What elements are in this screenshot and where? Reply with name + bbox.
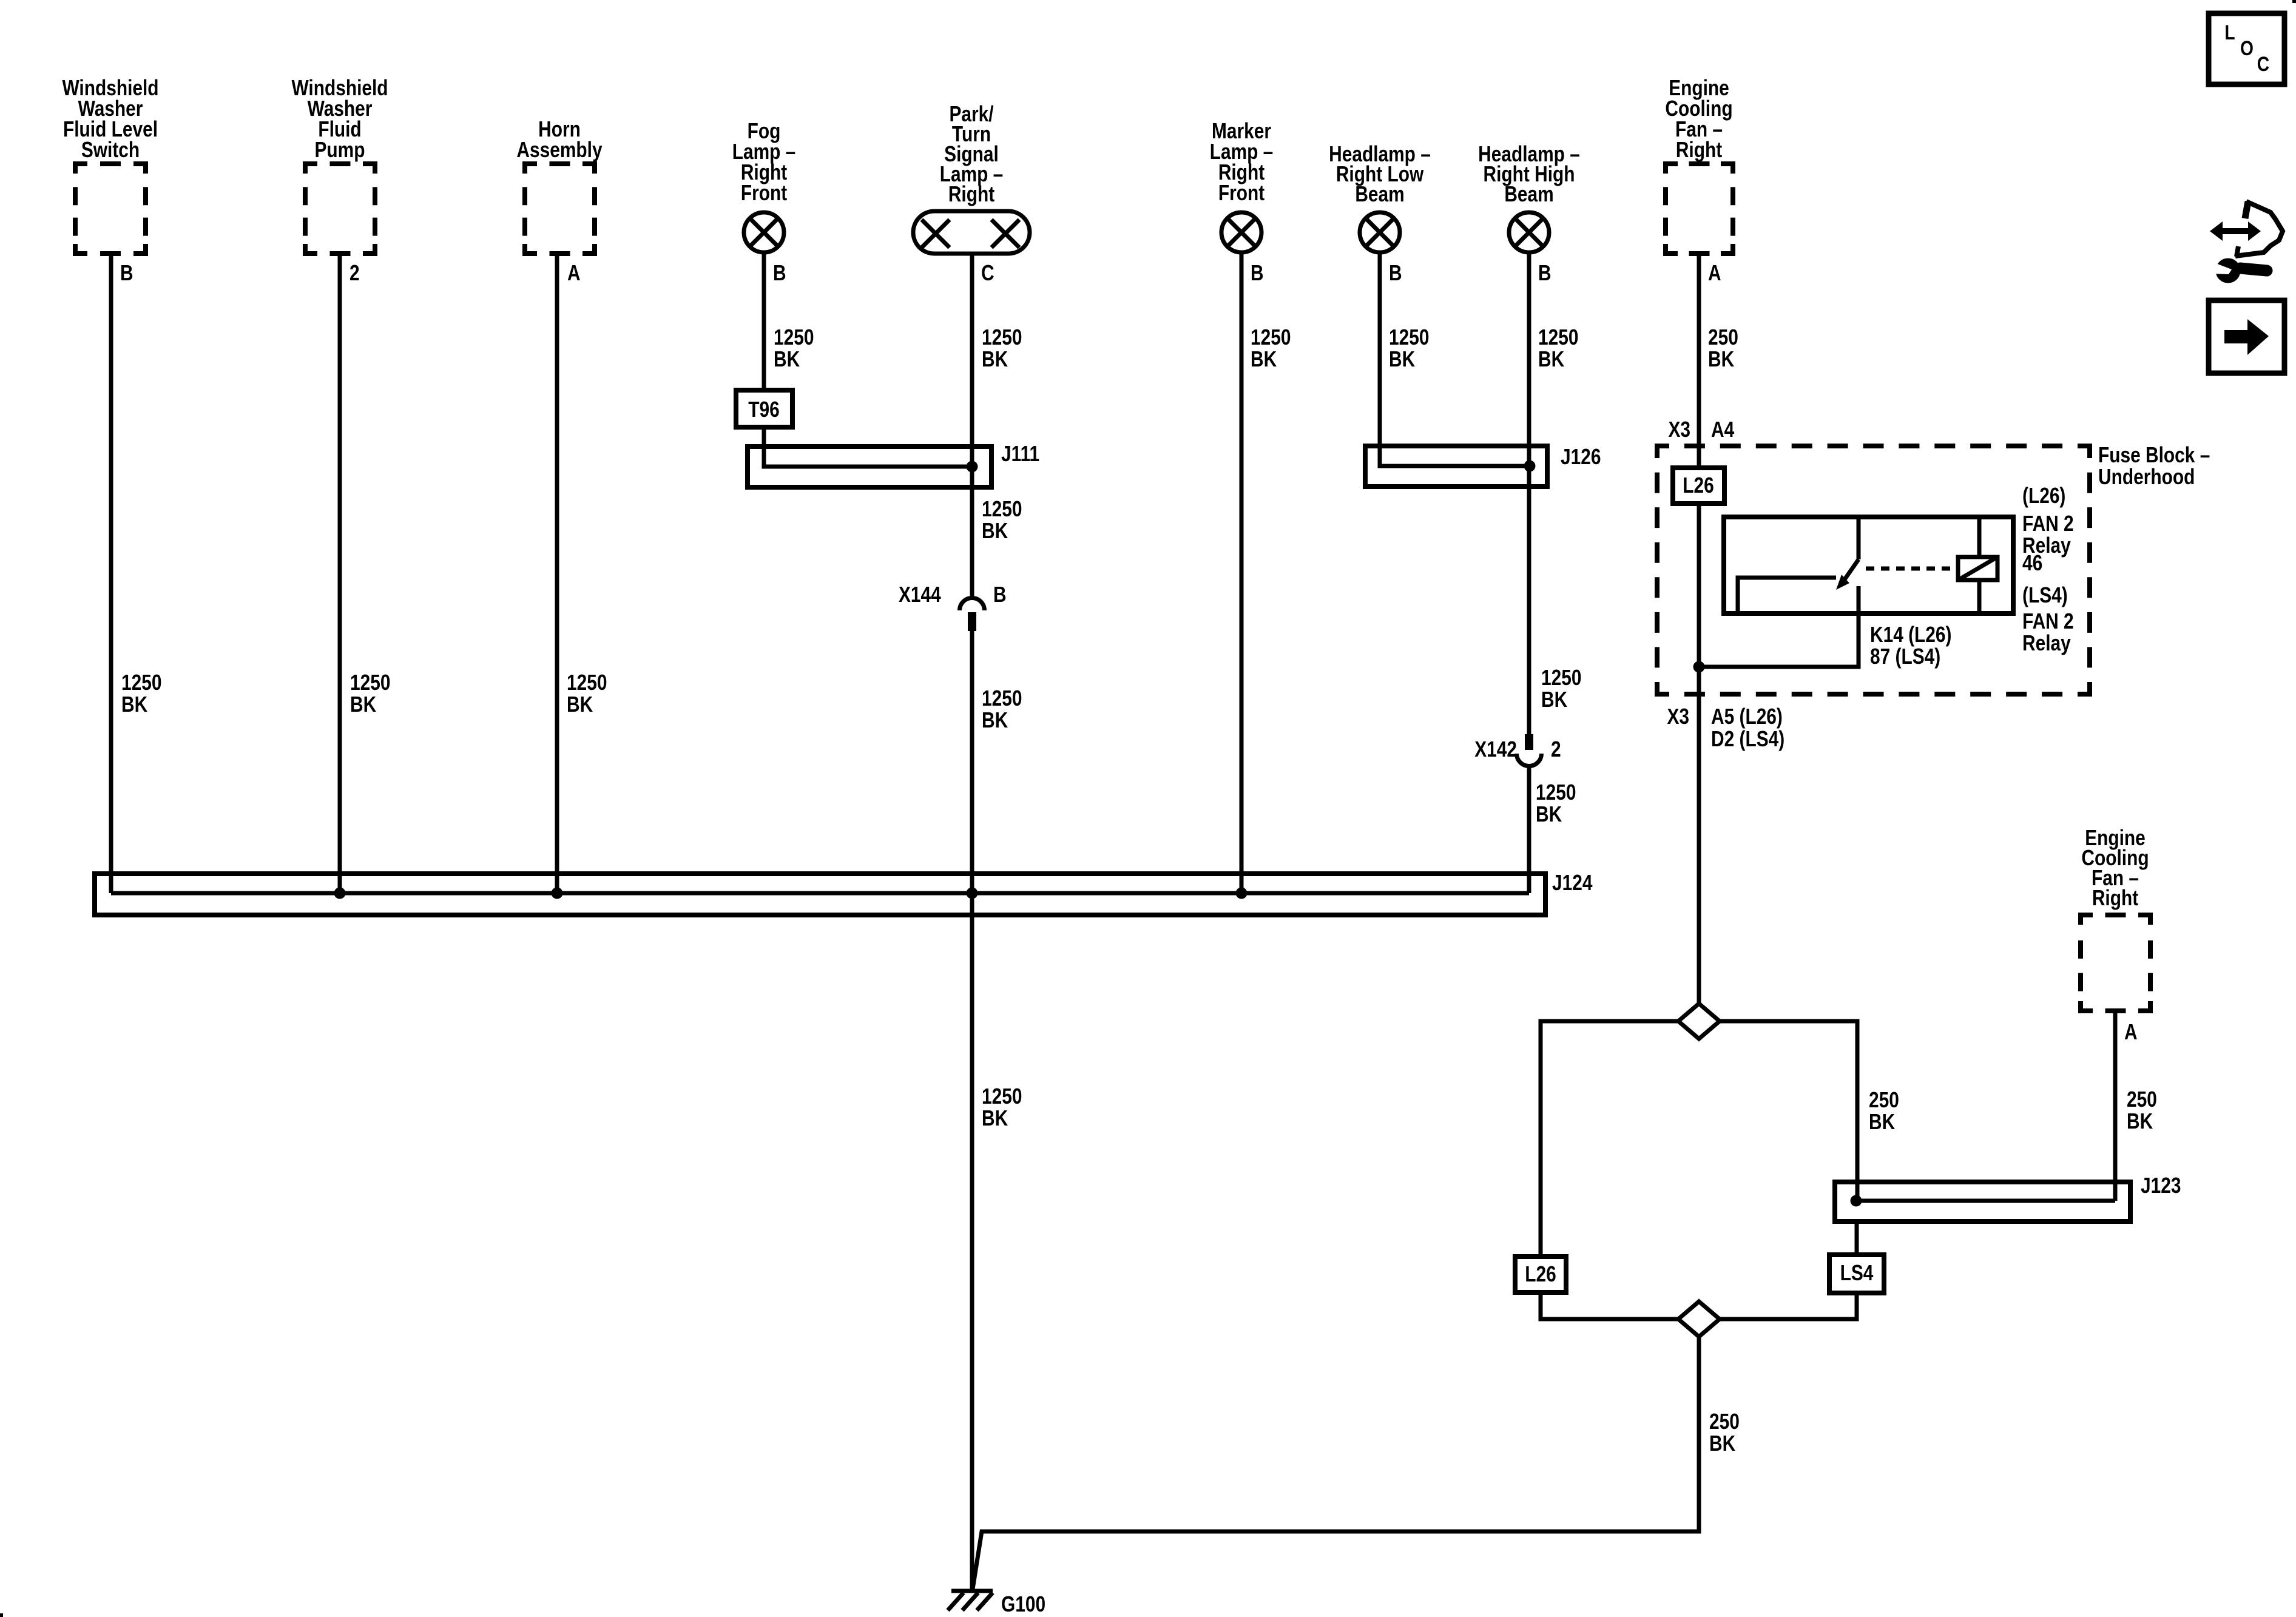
svg-text:BK: BK <box>1869 1110 1895 1134</box>
svg-text:Relay: Relay <box>2022 631 2071 655</box>
svg-text:T96: T96 <box>748 397 779 422</box>
next-page arrow icon box <box>2209 300 2284 373</box>
wire label 1250 BK (horn ground wire) <box>567 670 607 717</box>
svg-text:A5 (L26): A5 (L26) <box>1711 704 1783 729</box>
relay K14 FAN 2 Relay (outline) <box>1724 517 2013 613</box>
svg-text:BK: BK <box>1251 347 1277 371</box>
component: Headlamp - Right Low Beam (lamp symbol) <box>1329 142 1431 252</box>
wire: fog lamp pin B to T96 <box>762 252 766 390</box>
wire: diamond top to LS4 branch (right) <box>1720 1021 1857 1201</box>
svg-text:BK: BK <box>982 347 1008 371</box>
svg-text:C: C <box>981 261 994 285</box>
wire label 1250 BK (below X144) <box>982 686 1022 732</box>
wire: low beam pin B to splice J126 <box>1380 252 1530 466</box>
component: Fog Lamp - Right Front (lamp symbol) <box>732 119 796 252</box>
svg-text:FAN 2: FAN 2 <box>2022 511 2074 536</box>
svg-text:LS4: LS4 <box>1840 1261 1874 1285</box>
svg-text:1250: 1250 <box>1536 780 1576 805</box>
junction dot at fan wire / relay 87 wire <box>1693 661 1705 673</box>
svg-text:Assembly: Assembly <box>516 138 603 162</box>
svg-text:BK: BK <box>982 708 1008 732</box>
svg-text:BK: BK <box>774 347 800 371</box>
wire: X144 to J124 to G100 <box>970 631 974 1591</box>
wire: fan pin A through fuse block to diamond <box>1697 254 1701 1004</box>
wire: marker lamp pin B to J124 <box>1240 252 1244 893</box>
svg-text:1250: 1250 <box>774 325 814 349</box>
wire label 250 BK (LS4 branch) <box>1869 1088 1899 1134</box>
svg-text:Switch: Switch <box>81 138 140 162</box>
svg-text:A: A <box>1708 261 1721 285</box>
svg-text:Right: Right <box>2092 886 2138 910</box>
svg-text:Right: Right <box>948 182 994 206</box>
option merge diamond (bottom) <box>1678 1301 1720 1337</box>
wire label 250 BK (fan ground wire) <box>1708 325 1738 371</box>
wire label 1250 BK (marker lamp ground wire) <box>1251 325 1291 371</box>
svg-text:1250: 1250 <box>567 670 607 695</box>
component: Windshield Washer Fluid Level Switch (dashed box) <box>62 76 158 254</box>
svg-text:(LS4): (LS4) <box>2022 583 2068 607</box>
svg-text:B: B <box>120 261 133 285</box>
relay coil feed (upper) <box>1977 517 1982 557</box>
svg-text:L26: L26 <box>1683 473 1714 498</box>
svg-text:X142: X142 <box>1474 737 1517 761</box>
wire: J124 internal bus <box>111 891 1529 896</box>
junction at J126 (dot) <box>1524 461 1536 472</box>
svg-text:1250: 1250 <box>982 497 1022 521</box>
ground G100 <box>948 1591 1045 1617</box>
wire label 1250 BK (park/turn lamp ground wire, above J111) <box>982 325 1022 371</box>
svg-text:1250: 1250 <box>982 686 1022 711</box>
svg-text:250: 250 <box>2127 1087 2157 1112</box>
svg-text:1250: 1250 <box>1251 325 1291 349</box>
svg-text:1250: 1250 <box>1541 666 1581 690</box>
junction at J111 (dot) <box>967 461 978 473</box>
svg-text:J126: J126 <box>1561 445 1601 469</box>
svg-text:B: B <box>1389 261 1402 285</box>
connector X3 pin A4 labels <box>1668 417 1734 442</box>
wire label 1250 BK (high beam ground wire) <box>1538 325 1578 371</box>
splice J126 <box>1365 445 1601 487</box>
svg-text:BK: BK <box>1389 347 1415 371</box>
wire: washer switch pin B to J124 <box>109 254 113 893</box>
relay coil <box>1958 557 1997 580</box>
svg-text:Fuse Block –: Fuse Block – <box>2098 443 2210 467</box>
connector T96 <box>736 390 792 427</box>
wire: washer pump pin 2 to J124 <box>338 254 342 893</box>
inline connector X144 <box>899 582 1007 631</box>
svg-text:87 (LS4): 87 (LS4) <box>1870 644 1940 669</box>
svg-text:J124: J124 <box>1552 871 1593 895</box>
junction dot in J123 <box>1851 1195 1862 1207</box>
pin label K14 (L26) / 87 (LS4) <box>1870 623 1951 669</box>
page corner mark (bottom left) <box>0 1613 3 1617</box>
svg-text:250: 250 <box>1708 325 1738 349</box>
net label L26 (branch tag) <box>1515 1257 1566 1292</box>
wire: park/turn lamp pin C down through J111 to X144 <box>970 254 974 598</box>
component: Headlamp - Right High Beam (lamp symbol) <box>1478 142 1580 252</box>
svg-text:BK: BK <box>1538 347 1564 371</box>
net label L26 (fuse block entry) <box>1673 468 1724 504</box>
component: Park/Turn Signal Lamp - Right (dual lamp symbol) <box>913 102 1030 254</box>
wire: relay pin 87/K14 to fan wire junction <box>1699 586 1859 667</box>
wire label 1250 BK (low beam ground wire) <box>1389 325 1429 371</box>
wire: fan pin A to J123 <box>2113 1011 2118 1201</box>
svg-text:BK: BK <box>2127 1109 2153 1133</box>
svg-text:A: A <box>567 261 581 285</box>
svg-text:BK: BK <box>1536 802 1562 826</box>
relay designation labels (L26) FAN 2 Relay 46 <box>2022 484 2074 575</box>
connector X3 pin A5(L26)/D2(LS4) labels <box>1667 704 1784 751</box>
relay actuation dashed link <box>1866 567 1956 571</box>
svg-text:Beam: Beam <box>1504 182 1553 206</box>
svg-text:1250: 1250 <box>350 670 390 695</box>
splice J124 (ground bus) <box>95 871 1593 915</box>
svg-text:Front: Front <box>1218 181 1264 205</box>
wire label 1250 BK (above G100) <box>982 1084 1022 1130</box>
svg-text:X144: X144 <box>899 582 941 607</box>
svg-text:B: B <box>1251 261 1264 285</box>
splice J123 <box>1835 1173 2181 1221</box>
adjust/repair icon (double arrow, panel outline, wrench) <box>2210 201 2283 283</box>
svg-text:1250: 1250 <box>1538 325 1578 349</box>
svg-text:BK: BK <box>350 692 376 717</box>
svg-text:2: 2 <box>1551 737 1561 761</box>
wire: LS4 tag to bottom diamond <box>1720 1221 1857 1319</box>
svg-text:J111: J111 <box>1001 442 1039 466</box>
wire label 1250 BK (fog lamp ground wire) <box>774 325 814 371</box>
svg-text:1250: 1250 <box>982 325 1022 349</box>
svg-text:J123: J123 <box>2141 1173 2181 1198</box>
svg-text:G100: G100 <box>1001 1592 1045 1616</box>
inline connector X142 <box>1474 734 1561 766</box>
LOC (location) icon box <box>2209 13 2284 84</box>
svg-text:BK: BK <box>567 692 593 717</box>
svg-text:L26: L26 <box>1525 1262 1556 1286</box>
svg-text:1250: 1250 <box>982 1084 1022 1109</box>
relay designation labels (LS4) FAN 2 Relay <box>2022 583 2074 655</box>
svg-text:B: B <box>773 261 786 285</box>
svg-text:C: C <box>2257 53 2269 76</box>
svg-text:L: L <box>2224 21 2235 44</box>
svg-text:A: A <box>2124 1020 2138 1044</box>
wire label 250 BK (to ground) <box>1709 1409 1740 1456</box>
svg-text:BK: BK <box>1708 347 1734 371</box>
wire label 250 BK (lower fan ground wire) <box>2127 1087 2157 1133</box>
wire: J123 internal <box>1856 1199 2115 1203</box>
junction dots on J124 <box>334 888 1248 899</box>
svg-text:BK: BK <box>1709 1431 1735 1456</box>
wire label 1250 BK (washer pump ground wire) <box>350 670 390 717</box>
svg-text:(L26): (L26) <box>2022 484 2065 508</box>
component: Engine Cooling Fan - Right (dashed box, lower right) <box>2081 826 2150 1011</box>
svg-text:1250: 1250 <box>121 670 161 695</box>
option split diamond (top) <box>1678 1004 1720 1039</box>
svg-text:1250: 1250 <box>1389 325 1429 349</box>
svg-text:250: 250 <box>1709 1409 1740 1434</box>
component: Horn Assembly (dashed box) <box>516 117 603 254</box>
net label LS4 (branch tag) <box>1829 1255 1884 1293</box>
svg-text:BK: BK <box>982 1106 1008 1130</box>
svg-text:BK: BK <box>982 519 1008 543</box>
relay switch common stub (pin 30) <box>1857 517 1861 559</box>
wire: bottom diamond to G100 <box>973 1337 1699 1589</box>
component: Marker Lamp - Right Front (lamp symbol) <box>1210 119 1274 252</box>
wire label 1250 BK (below X142) <box>1536 780 1576 826</box>
wire: diamond top to L26 branch (left) <box>1541 1021 1678 1257</box>
component: Windshield Washer Fluid Pump (dashed box) <box>291 76 388 254</box>
relay coil feed (lower) <box>1977 580 1982 613</box>
wire: T96 to splice J111 <box>764 427 972 467</box>
svg-text:X3: X3 <box>1668 417 1690 442</box>
svg-text:250: 250 <box>1869 1088 1899 1112</box>
svg-text:Underhood: Underhood <box>2098 465 2195 489</box>
svg-text:Pump: Pump <box>315 138 365 162</box>
svg-text:Front: Front <box>741 181 787 205</box>
wire: L26 tag to bottom diamond <box>1541 1292 1678 1319</box>
svg-text:O: O <box>2240 37 2254 60</box>
wire: high beam pin B through J126 to X142 <box>1527 252 1531 734</box>
svg-text:X3: X3 <box>1667 704 1689 729</box>
wire label 1250 BK (above X142) <box>1541 666 1581 712</box>
svg-text:B: B <box>1538 261 1551 285</box>
svg-text:BK: BK <box>1541 687 1567 712</box>
svg-text:Beam: Beam <box>1355 182 1404 206</box>
splice J111 <box>748 442 1039 487</box>
component: Engine Cooling Fan - Right (dashed box, top) <box>1665 76 1733 254</box>
svg-text:Right: Right <box>1676 138 1722 162</box>
relay switch blade <box>1836 559 1859 590</box>
page corner mark (top right) <box>2292 0 2296 3</box>
svg-text:BK: BK <box>121 692 147 717</box>
wire: horn pin A to J124 <box>555 254 559 893</box>
svg-text:A4: A4 <box>1711 417 1735 442</box>
svg-text:46: 46 <box>2022 551 2042 575</box>
component: Fuse Block - Underhood (dashed outline) <box>1657 443 2210 694</box>
wire: X142 to J124 <box>1527 766 1531 893</box>
svg-text:D2 (LS4): D2 (LS4) <box>1711 727 1784 751</box>
svg-text:FAN 2: FAN 2 <box>2022 609 2074 633</box>
wire label 1250 BK (below J111) <box>982 497 1022 543</box>
relay fixed contact (pin 87) <box>1738 578 1836 613</box>
svg-text:2: 2 <box>349 261 360 285</box>
wire label 1250 BK (washer switch ground wire) <box>121 670 161 717</box>
svg-text:K14 (L26): K14 (L26) <box>1870 623 1951 647</box>
svg-text:B: B <box>993 582 1007 607</box>
